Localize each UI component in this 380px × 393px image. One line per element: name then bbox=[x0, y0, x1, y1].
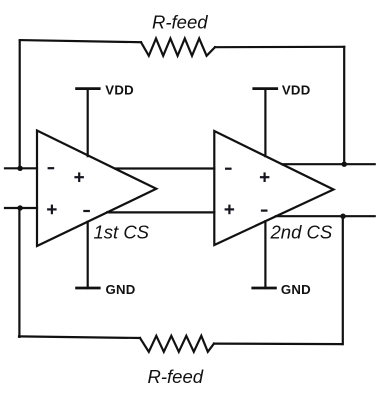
wire input stub upper left bbox=[5, 167, 37, 169]
U2 pin label minus (lower output) bbox=[261, 210, 268, 212]
U2 pin label plus (lower input) bbox=[225, 208, 235, 210]
VDD rail U1 bar bbox=[77, 87, 100, 90]
wire top-right vertical bbox=[343, 47, 345, 164]
svg-text:GND: GND bbox=[106, 282, 136, 297]
U2 pin label minus (upper input) bbox=[225, 168, 232, 170]
svg-text:VDD: VDD bbox=[282, 82, 311, 97]
svg-text:2nd CS: 2nd CS bbox=[270, 221, 333, 242]
junction node lower-right bbox=[340, 214, 345, 219]
op-amp U2 triangle bbox=[214, 131, 333, 245]
wire bottom horizontal right segment bbox=[214, 343, 342, 346]
svg-text:1st CS: 1st CS bbox=[94, 221, 150, 242]
ground U1 bar bbox=[77, 287, 100, 290]
ground U1 vertical bbox=[87, 222, 89, 288]
ground U2 bar bbox=[253, 287, 276, 290]
wire bottom horizontal left segment bbox=[19, 336, 140, 338]
wire U1 to U2 upper bbox=[116, 167, 215, 169]
U1 pin label plus (upper output) bbox=[74, 176, 84, 178]
op-amp U1 triangle bbox=[37, 131, 156, 247]
VDD rail U2 bar bbox=[254, 87, 277, 90]
svg-text:R-feed: R-feed bbox=[148, 366, 204, 387]
wire input stub lower left bbox=[5, 207, 37, 209]
resistor R-feed (bottom) bbox=[140, 336, 214, 352]
wire output upper bbox=[282, 163, 375, 165]
wire top horizontal left segment bbox=[20, 40, 141, 42]
wire bottom-right vertical bbox=[342, 216, 344, 344]
ground U2 vertical bbox=[264, 221, 266, 288]
U1 pin label minus (upper input) bbox=[48, 167, 55, 169]
svg-text:R-feed: R-feed bbox=[152, 12, 208, 33]
U1 pin label minus (lower output) bbox=[83, 210, 90, 212]
wire U1 to U2 lower bbox=[107, 211, 214, 213]
wire top-left vertical bbox=[19, 41, 21, 168]
junction node lower-left bbox=[17, 205, 22, 210]
VDD rail U1 vertical bbox=[87, 89, 89, 157]
wire top horizontal right segment bbox=[215, 46, 344, 49]
resistor R-feed (top) bbox=[141, 39, 215, 56]
wire output lower bbox=[276, 215, 375, 217]
svg-text:GND: GND bbox=[281, 282, 311, 297]
VDD rail U2 vertical bbox=[264, 89, 266, 157]
U2 pin label plus (upper output) bbox=[260, 176, 270, 178]
junction node upper-left bbox=[17, 166, 22, 171]
junction node upper-right bbox=[342, 162, 347, 167]
wire bottom-left vertical bbox=[18, 208, 20, 337]
U1 pin label plus (lower input) bbox=[47, 208, 57, 210]
svg-text:VDD: VDD bbox=[105, 82, 134, 97]
